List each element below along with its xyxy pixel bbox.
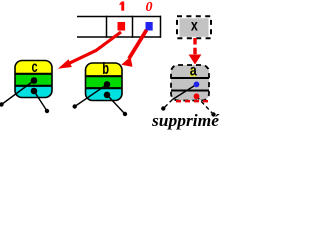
- red arrowhead down: [189, 55, 202, 65]
- hash table bottom line: [77, 36, 161, 38]
- table right border: [160, 16, 162, 38]
- table divider left: [106, 16, 108, 38]
- label 1: [121, 2, 124, 11]
- node b right pointer line: [107, 95, 125, 114]
- node a red pointer dot: [194, 93, 200, 99]
- node c body: [15, 61, 52, 98]
- node c left pointer line: [2, 81, 35, 105]
- svg-text:b: b: [102, 61, 109, 80]
- svg-text:a: a: [189, 63, 197, 81]
- node a left pointer dashed line: [173, 84, 197, 99]
- node b pointer dot 2: [104, 92, 111, 99]
- node b right null dot: [123, 112, 127, 116]
- x box gray fill: [180, 18, 209, 37]
- arrowhead 2: [121, 57, 132, 67]
- node c pointer dot 2: [31, 88, 38, 95]
- node a red dashed bottom border: [176, 100, 208, 102]
- node a right pointer dashed line: [197, 96, 214, 114]
- svg-text:0: 0: [146, 0, 153, 15]
- svg-text:c: c: [31, 60, 38, 78]
- node b pointer dot 1: [104, 81, 111, 88]
- node c pointer dot 1: [31, 77, 38, 84]
- node c right pointer line: [34, 91, 47, 111]
- svg-text:x: x: [191, 17, 198, 35]
- red arrow 2: from blue square cell to node b: [129, 30, 147, 59]
- x box dashed border: [177, 16, 211, 38]
- node c right null dot: [45, 109, 49, 113]
- red dashed arrow from x box down to node a: [193, 38, 196, 55]
- node a blue pointer dot: [194, 82, 200, 88]
- blue square in cell 0: [146, 22, 153, 31]
- hash table top line: [77, 16, 161, 18]
- arrowhead 1: [58, 59, 72, 68]
- table divider mid: [132, 16, 134, 38]
- node a right null dot: [211, 112, 215, 116]
- node b left pointer line: [75, 84, 107, 106]
- red arrow 1: from red square cell to node c: [67, 32, 121, 64]
- node a body (deleted, gray): [171, 65, 209, 101]
- node b left null dot: [73, 104, 77, 108]
- red square in cell 1: [118, 22, 126, 31]
- svg-text:supprimé: supprimé: [151, 111, 221, 130]
- node a left null dot: [161, 106, 165, 110]
- node b body: [86, 63, 123, 101]
- node c left null dot: [0, 102, 4, 106]
